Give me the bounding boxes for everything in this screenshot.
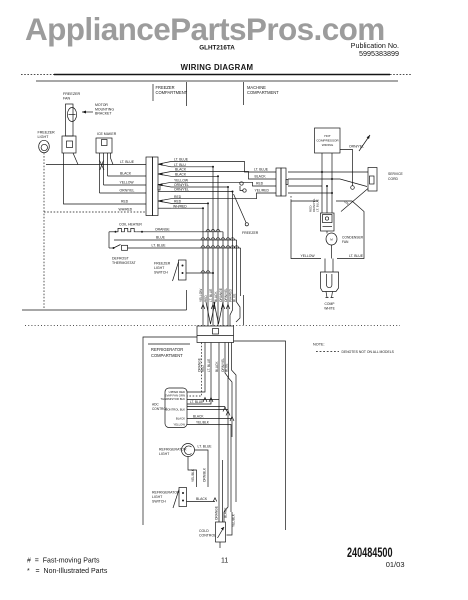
refrigerator compartment left border: [143, 337, 197, 525]
bus wire x208 RED: [207, 203, 209, 325]
svg-text:COMPARTMENT: COMPARTMENT: [247, 90, 279, 95]
freezer bottom border: [22, 309, 187, 311]
J2 output rows: [288, 171, 368, 173]
refrigerator light bulb: [182, 444, 195, 457]
svg-text:FREEZER: FREEZER: [63, 92, 81, 96]
svg-text:THERMISTOR BLK: THERMISTOR BLK: [160, 397, 185, 401]
svg-text:COLD: COLD: [199, 529, 209, 533]
svg-text:YEL/RED: YEL/RED: [255, 189, 270, 193]
left vertical of heater circuit: [108, 232, 110, 248]
wedge splice YELLOW/ORN pair: [158, 182, 171, 187]
freezer light dashed lead down: [43, 153, 45, 310]
svg-text:WIRING: WIRING: [322, 143, 334, 147]
wire BLACK row: [108, 175, 147, 177]
svg-text:REFRIGERATOR: REFRIGERATOR: [151, 347, 183, 352]
svg-text:RED: RED: [256, 182, 264, 186]
wedge splice RED pair: [158, 199, 171, 204]
svg-text:BLACK: BLACK: [255, 175, 267, 179]
svg-text:YELLOW: YELLOW: [173, 423, 185, 427]
svg-text:LT. BLU: LT. BLU: [174, 163, 186, 167]
svg-text:ORN/YEL: ORN/YEL: [224, 288, 228, 302]
svg-text:WH/RED: WH/RED: [173, 204, 187, 208]
svg-text:YEL/BLK: YEL/BLK: [232, 513, 236, 527]
svg-text:LT. BLUE: LT. BLUE: [209, 289, 213, 302]
svg-text:REFRIGERATOR: REFRIGERATOR: [152, 491, 180, 495]
lower connector J3: [197, 326, 234, 343]
svg-text:BLUE: BLUE: [225, 364, 229, 372]
bus wire x203 WH/RED: [202, 208, 204, 325]
svg-text:BLUE: BLUE: [233, 294, 237, 302]
svg-text:WHITE: WHITE: [324, 307, 335, 311]
svg-text:LIGHT: LIGHT: [38, 135, 50, 139]
cold control body: [216, 522, 226, 542]
svg-text:LIGHT: LIGHT: [154, 266, 165, 270]
freezer fan motor box: [62, 136, 76, 153]
svg-text:FREEZER: FREEZER: [38, 131, 56, 135]
svg-text:BLACK: BLACK: [196, 497, 208, 501]
svg-text:LT. BLUE: LT. BLUE: [120, 160, 135, 164]
wire WH/RED to bus: [171, 207, 203, 209]
svg-text:5995383899: 5995383899: [359, 49, 399, 58]
ground lead diagonal: [341, 189, 368, 212]
wedge splice LT BLUE pair: [158, 162, 171, 167]
wire LT.BLUE to machine row: [171, 162, 276, 173]
ice maker pins: [100, 153, 111, 161]
svg-text:NOTE:: NOTE:: [313, 343, 325, 347]
svg-text:FAN: FAN: [342, 240, 349, 244]
wire ORN/YEL row: [100, 192, 147, 194]
svg-text:COIL HEATER: COIL HEATER: [119, 223, 142, 227]
svg-text:11: 11: [221, 558, 228, 565]
top rule dotted+solid: [21, 74, 54, 76]
refrigerator light switch body: [179, 488, 187, 507]
svg-text:COMPARTMENT: COMPARTMENT: [151, 353, 183, 358]
cold control wires: [218, 410, 220, 522]
svg-text:DENOTES NOT ON ALL MODELS: DENOTES NOT ON ALL MODELS: [342, 350, 395, 354]
svg-text:YEL/BLK: YEL/BLK: [196, 421, 210, 425]
wire RED to bus: [171, 202, 208, 204]
connector block J2: [276, 168, 281, 196]
refrigerator compartment right border: [234, 341, 286, 530]
wire BLACK to machine row: [171, 172, 276, 180]
svg-text:ORN/YEL: ORN/YEL: [174, 188, 189, 192]
svg-text:AppliancePartsPros.com: AppliancePartsPros.com: [25, 11, 385, 47]
svg-text:RED: RED: [174, 200, 182, 204]
bus wire x223 ORANGE turn: [222, 232, 224, 326]
machine compartment bracket: [243, 82, 245, 105]
wire BLUE row: [114, 239, 237, 241]
wire BLACK to bus: [171, 175, 218, 177]
light leads: [195, 450, 209, 487]
compressor plug: [321, 272, 339, 292]
freezer callout: [234, 194, 247, 223]
wedge splice BLACK pair: [158, 172, 171, 177]
hot compressor wiring box: [315, 128, 341, 153]
svg-text:BLUE: BLUE: [156, 236, 166, 240]
svg-text:YELLOW: YELLOW: [199, 289, 203, 302]
merge V wires above connector: [206, 302, 215, 324]
svg-text:LIGHT: LIGHT: [152, 495, 163, 499]
wire WH/RED dashed row: [44, 211, 146, 213]
svg-text:RED: RED: [204, 295, 208, 302]
svg-text:LT. BLUE: LT. BLUE: [190, 400, 203, 404]
svg-text:COMPRESSOR: COMPRESSOR: [316, 139, 339, 143]
svg-text:BLACK: BLACK: [215, 361, 219, 372]
svg-text:SERVICE: SERVICE: [388, 172, 404, 176]
condenser enclosure: [291, 201, 321, 259]
svg-text:REFRIGERATOR: REFRIGERATOR: [159, 448, 187, 452]
bus wire x232 ORN/YEL2 jog: [230, 192, 233, 326]
arrow to fan: [82, 111, 93, 113]
svg-text:LT. BLUE: LT. BLUE: [207, 359, 211, 372]
svg-text:* = Non-Illustrated Parts: * = Non-Illustrated Parts: [27, 568, 108, 575]
wire YELLOW to machine row: [171, 182, 276, 186]
compressor box leads: [321, 153, 323, 213]
svg-text:GLHT216TA: GLHT216TA: [199, 45, 235, 52]
svg-text:FREEZER: FREEZER: [154, 262, 171, 266]
bus wire x213 LT.BLU: [212, 167, 214, 326]
svg-text:COMP: COMP: [325, 302, 336, 306]
condenser fan: [326, 233, 337, 245]
wire ORN/YEL to bus: [171, 186, 228, 188]
freezer light switch body: [179, 260, 187, 280]
fan left lead RED row: [64, 153, 147, 204]
svg-text:FAN: FAN: [63, 97, 71, 101]
dotted section divider: [25, 325, 400, 327]
svg-text:ORN/YEL: ORN/YEL: [174, 183, 189, 187]
freezer fan blade: [67, 108, 76, 122]
svg-text:YELLOW: YELLOW: [301, 254, 316, 258]
svg-text:COMPARTMENT: COMPARTMENT: [156, 90, 188, 95]
wire ORANGE row: [136, 231, 223, 233]
svg-text:ORANGE: ORANGE: [215, 506, 219, 520]
svg-text:RED: RED: [121, 200, 129, 204]
lower bus wires: [187, 343, 205, 393]
bus wire x228 ORN/YEL: [227, 187, 229, 326]
ice maker pin leads: [100, 158, 114, 193]
svg-text:ICE MAKER: ICE MAKER: [97, 132, 117, 136]
row crossing hops: [206, 230, 210, 232]
top border of diagram: [36, 80, 398, 82]
damper control box: [165, 388, 187, 428]
svg-text:BLACK: BLACK: [120, 172, 132, 176]
svg-text:SWITCH: SWITCH: [154, 271, 168, 275]
service cord plug: [368, 168, 377, 192]
svg-text:CONTROL BLK: CONTROL BLK: [165, 408, 185, 412]
wire LT. BLUE row: [46, 164, 146, 166]
svg-text:LT. BLUE: LT. BLUE: [174, 158, 189, 162]
wire LT.BLU to bus: [171, 166, 213, 168]
relay/overload: [321, 213, 335, 231]
freezer light bulb: [39, 140, 50, 152]
svg-text:LT. BLUE: LT. BLUE: [152, 244, 167, 248]
wire LT. BLUE row: [128, 247, 241, 249]
refrigerator compartment label: [148, 343, 190, 345]
svg-text:BLACK: BLACK: [176, 417, 185, 421]
svg-text:DEFROST: DEFROST: [112, 257, 130, 261]
svg-text:ORANGE: ORANGE: [155, 227, 170, 231]
freezer compartment bracket: [152, 84, 154, 101]
svg-text:SWITCH: SWITCH: [152, 500, 166, 504]
svg-text:YEL/BLK: YEL/BLK: [191, 468, 195, 482]
svg-text:FREEZER: FREEZER: [242, 231, 259, 235]
compressor leads: [325, 259, 333, 273]
bus wire x218 BLACK: [217, 176, 219, 325]
chevron arrows on bus: [201, 305, 205, 310]
svg-text:THERMOSTAT: THERMOSTAT: [112, 261, 136, 265]
box right lead to service cord: [340, 150, 353, 186]
dashed drop from J2: [290, 196, 292, 201]
svg-text:HOT: HOT: [324, 134, 331, 138]
svg-text:CONTROL: CONTROL: [199, 534, 216, 538]
svg-text:CONTROL: CONTROL: [152, 407, 168, 411]
svg-text:LT. BLUE: LT. BLUE: [198, 445, 213, 449]
single ORN/YEL out: [158, 191, 171, 193]
wire YELLOW row: [104, 184, 147, 186]
svg-text:BLACK: BLACK: [224, 507, 228, 518]
fan lead to LT BLUE row: [73, 153, 78, 165]
ice maker body: [96, 138, 112, 153]
wire ORN/YEL2 to bus: [171, 191, 233, 193]
defrost thermostat: [109, 247, 113, 249]
bus wire x240 LT.BLUE turn: [240, 248, 242, 296]
lower bus dashed ORANGE: [187, 343, 202, 397]
svg-text:CORD: CORD: [388, 177, 399, 181]
svg-text:LT. BLUE: LT. BLUE: [254, 168, 269, 172]
single WH/RED out: [158, 207, 171, 209]
svg-text:YELLOW: YELLOW: [120, 181, 135, 185]
svg-text:ORANGE: ORANGE: [219, 288, 223, 302]
svg-text:WIRING DIAGRAM: WIRING DIAGRAM: [181, 63, 254, 72]
control row wires: [187, 399, 219, 401]
svg-text:BLACK: BLACK: [193, 415, 204, 419]
bus wire x236 BLUE turn: [236, 240, 240, 322]
coil heater element: [109, 231, 115, 233]
svg-text:BLACK: BLACK: [214, 291, 218, 302]
svg-text:ORN/YEL: ORN/YEL: [120, 189, 135, 193]
svg-text:01/03: 01/03: [386, 560, 405, 569]
svg-text:YELLOW: YELLOW: [174, 178, 189, 182]
svg-text:M: M: [330, 238, 333, 242]
svg-text:BLACK: BLACK: [175, 168, 187, 172]
svg-text:BLACK: BLACK: [175, 173, 187, 177]
splice circles: [240, 182, 243, 185]
svg-text:WH/RED: WH/RED: [119, 208, 133, 212]
freezer fan duct: [66, 104, 74, 136]
svg-text:ORN/BLK: ORN/BLK: [203, 467, 207, 482]
svg-text:RED: RED: [174, 195, 182, 199]
chevrons on control rows: [203, 398, 207, 403]
svg-text:BRACKET: BRACKET: [95, 112, 112, 116]
svg-text:# = Fast-moving Parts: # = Fast-moving Parts: [27, 558, 100, 565]
svg-text:RED: RED: [201, 365, 205, 372]
wire RED to machine row: [171, 193, 276, 199]
switch wire to bus: [186, 272, 213, 274]
svg-text:240484500: 240484500: [347, 545, 393, 560]
machine bottom border: [243, 295, 245, 325]
connector block J1: [146, 157, 153, 216]
switch BLACK wire: [187, 501, 216, 503]
svg-text:LIGHT: LIGHT: [159, 452, 170, 456]
svg-text:LT. BLUE: LT. BLUE: [349, 254, 364, 258]
